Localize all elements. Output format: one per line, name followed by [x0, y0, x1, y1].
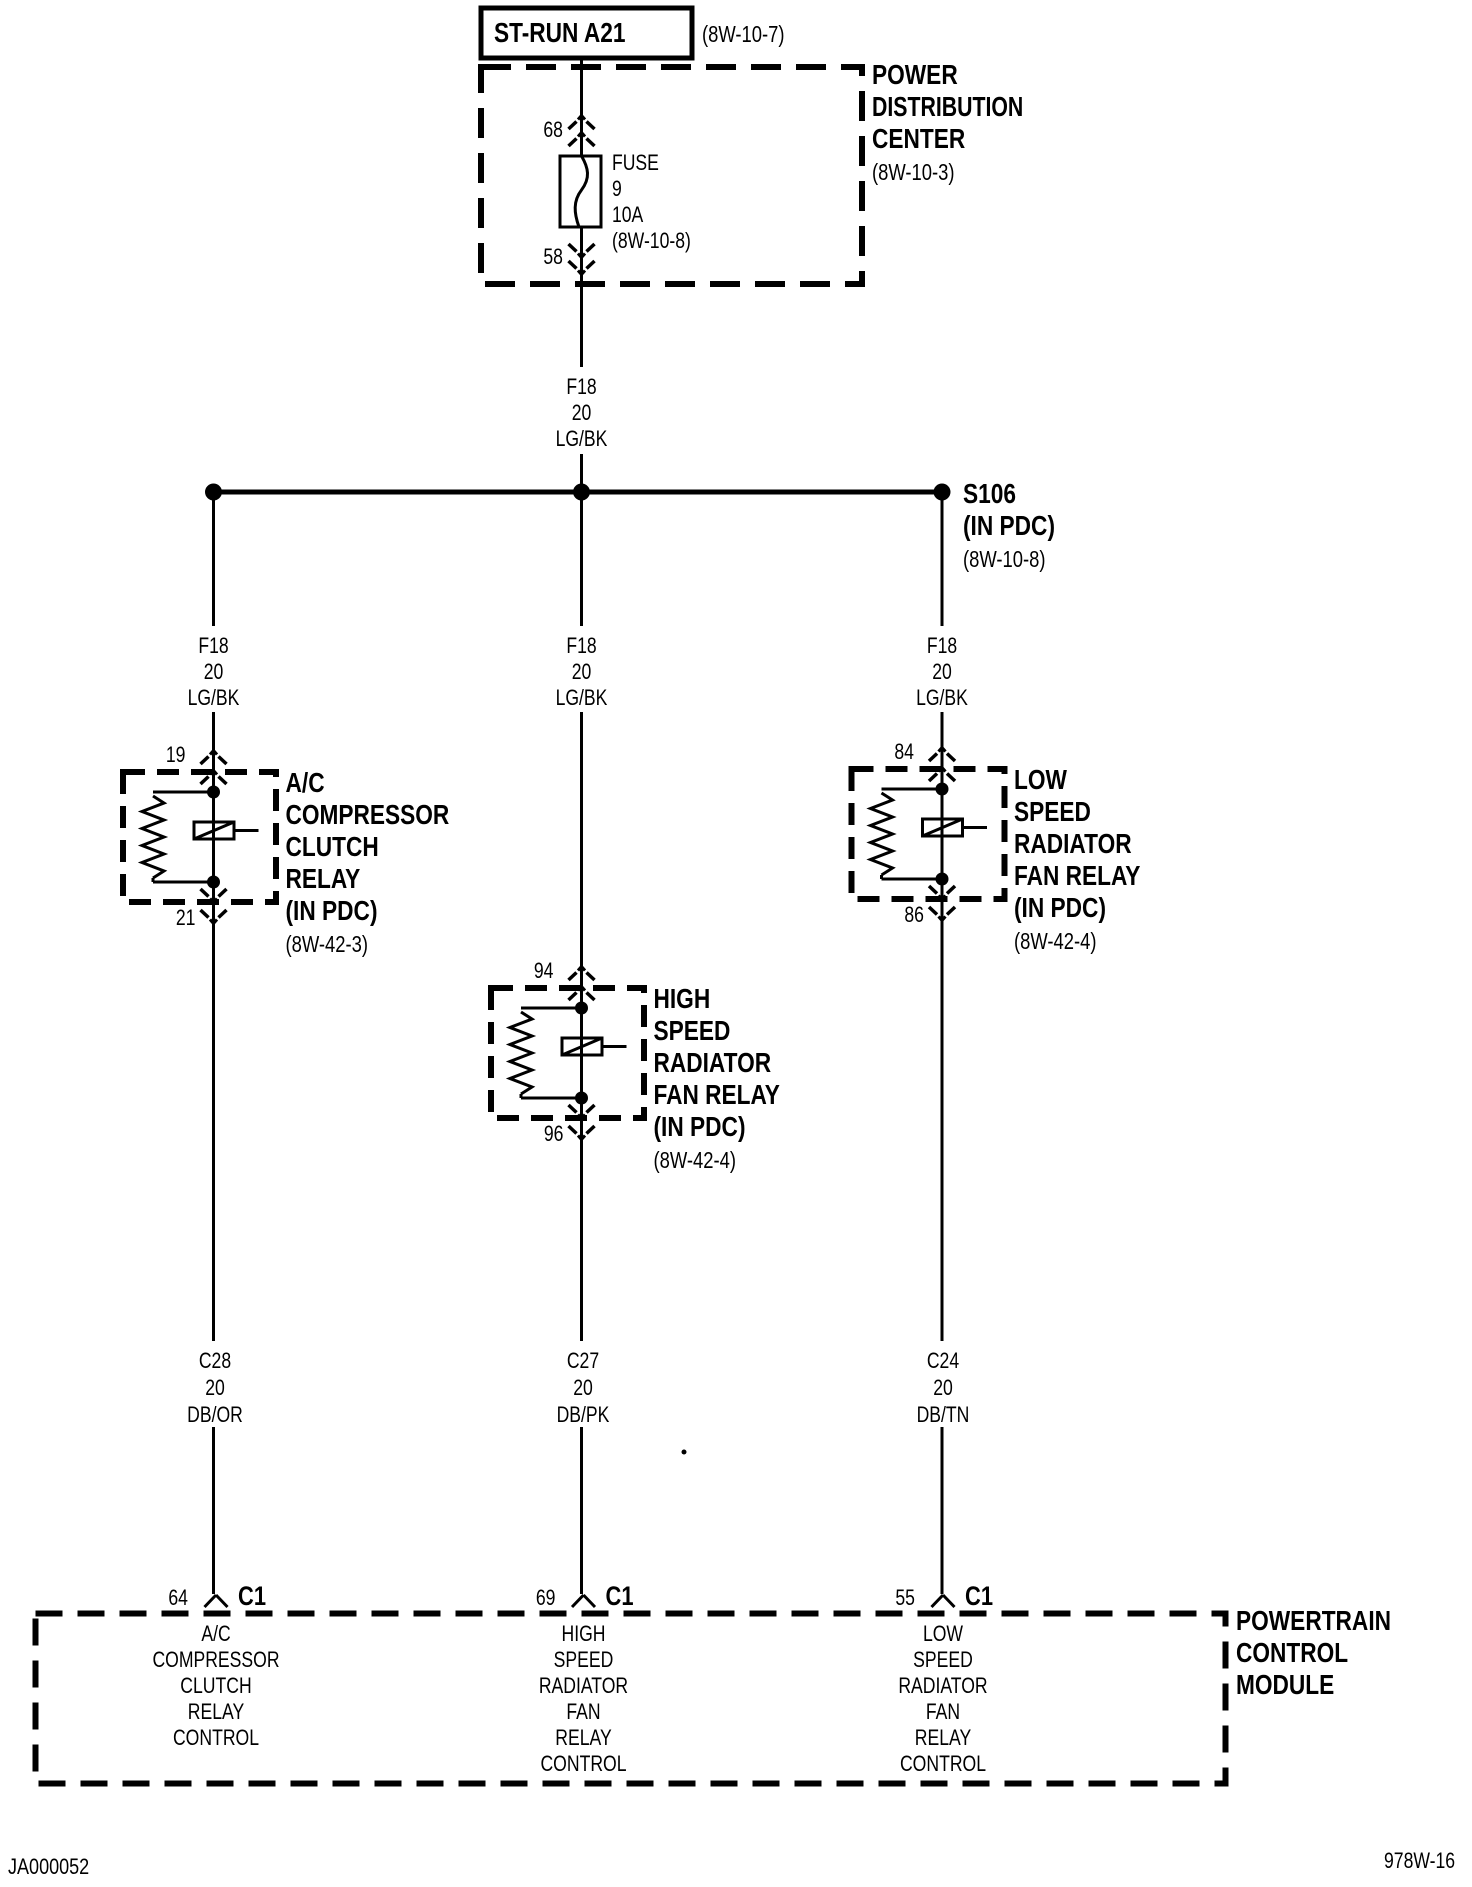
svg-text:MODULE: MODULE	[1236, 1669, 1334, 1700]
svg-text:(8W-10-3): (8W-10-3)	[872, 159, 955, 185]
svg-text:20: 20	[572, 659, 592, 684]
svg-text:F18: F18	[927, 633, 957, 658]
svg-text:HIGH: HIGH	[562, 1621, 606, 1646]
svg-text:20: 20	[204, 659, 224, 684]
svg-text:19: 19	[166, 742, 186, 767]
svg-text:A/C: A/C	[286, 767, 325, 798]
svg-text:LOW: LOW	[1014, 764, 1067, 795]
svg-text:86: 86	[904, 902, 924, 927]
svg-text:FAN RELAY: FAN RELAY	[1014, 860, 1141, 891]
svg-text:RADIATOR: RADIATOR	[1014, 828, 1132, 859]
svg-text:C24: C24	[927, 1348, 959, 1373]
svg-text:COMPRESSOR: COMPRESSOR	[286, 799, 450, 830]
svg-text:FAN RELAY: FAN RELAY	[654, 1079, 781, 1110]
svg-text:JA000052: JA000052	[8, 1854, 89, 1879]
svg-text:21: 21	[176, 905, 196, 930]
svg-text:POWERTRAIN: POWERTRAIN	[1236, 1605, 1391, 1636]
svg-text:(8W-42-4): (8W-42-4)	[1014, 928, 1097, 954]
svg-text:(8W-42-4): (8W-42-4)	[654, 1147, 737, 1173]
svg-text:DB/TN: DB/TN	[917, 1402, 970, 1427]
svg-text:(8W-10-7): (8W-10-7)	[702, 21, 785, 47]
svg-text:(8W-10-8): (8W-10-8)	[963, 546, 1046, 572]
svg-text:CONTROL: CONTROL	[1236, 1637, 1348, 1668]
svg-text:(IN PDC): (IN PDC)	[654, 1111, 746, 1142]
svg-text:F18: F18	[566, 633, 596, 658]
svg-text:C1: C1	[606, 1581, 634, 1611]
svg-text:LG/BK: LG/BK	[188, 685, 240, 710]
svg-text:C1: C1	[965, 1581, 993, 1611]
svg-text:69: 69	[536, 1585, 556, 1610]
svg-text:20: 20	[573, 1375, 593, 1400]
svg-text:96: 96	[544, 1121, 564, 1146]
svg-text:20: 20	[933, 1375, 953, 1400]
svg-text:(IN PDC): (IN PDC)	[286, 895, 378, 926]
svg-text:55: 55	[895, 1585, 915, 1610]
svg-text:CONTROL: CONTROL	[900, 1751, 986, 1776]
svg-text:C28: C28	[199, 1348, 231, 1373]
svg-text:FUSE: FUSE	[612, 150, 659, 175]
svg-text:RADIATOR: RADIATOR	[654, 1047, 772, 1078]
svg-text:DB/PK: DB/PK	[557, 1402, 610, 1427]
svg-text:C1: C1	[238, 1581, 266, 1611]
svg-text:10A: 10A	[612, 202, 644, 227]
svg-text:S106: S106	[963, 478, 1016, 509]
svg-text:RELAY: RELAY	[555, 1725, 612, 1750]
svg-text:84: 84	[894, 739, 914, 764]
svg-text:CENTER: CENTER	[872, 123, 965, 154]
svg-text:RADIATOR: RADIATOR	[898, 1673, 987, 1698]
svg-text:RADIATOR: RADIATOR	[539, 1673, 628, 1698]
svg-text:A/C: A/C	[201, 1621, 230, 1646]
svg-text:(8W-42-3): (8W-42-3)	[286, 931, 369, 957]
svg-text:58: 58	[543, 244, 563, 269]
svg-text:(8W-10-8): (8W-10-8)	[612, 228, 691, 253]
svg-text:20: 20	[572, 400, 592, 425]
svg-text:CLUTCH: CLUTCH	[286, 831, 379, 862]
svg-text:LOW: LOW	[923, 1621, 963, 1646]
svg-text:94: 94	[534, 958, 554, 983]
svg-text:(IN PDC): (IN PDC)	[963, 510, 1055, 541]
svg-text:POWER: POWER	[872, 59, 958, 90]
svg-text:F18: F18	[198, 633, 228, 658]
svg-text:DB/OR: DB/OR	[187, 1402, 243, 1427]
svg-text:RELAY: RELAY	[286, 863, 361, 894]
svg-text:SPEED: SPEED	[913, 1647, 973, 1672]
svg-text:CLUTCH: CLUTCH	[180, 1673, 251, 1698]
svg-text:CONTROL: CONTROL	[540, 1751, 626, 1776]
svg-text:FAN: FAN	[566, 1699, 600, 1724]
svg-text:COMPRESSOR: COMPRESSOR	[152, 1647, 279, 1672]
svg-text:LG/BK: LG/BK	[916, 685, 968, 710]
svg-text:SPEED: SPEED	[1014, 796, 1091, 827]
svg-text:9: 9	[612, 176, 622, 201]
svg-text:LG/BK: LG/BK	[556, 685, 608, 710]
svg-text:ST-RUN A21: ST-RUN A21	[494, 17, 626, 48]
svg-text:RELAY: RELAY	[188, 1699, 245, 1724]
svg-text:CONTROL: CONTROL	[173, 1725, 259, 1750]
svg-text:(IN PDC): (IN PDC)	[1014, 892, 1106, 923]
svg-text:FAN: FAN	[926, 1699, 960, 1724]
svg-text:20: 20	[932, 659, 952, 684]
svg-text:64: 64	[168, 1585, 188, 1610]
svg-text:978W-16: 978W-16	[1384, 1848, 1455, 1873]
svg-text:RELAY: RELAY	[915, 1725, 972, 1750]
svg-text:DISTRIBUTION: DISTRIBUTION	[872, 91, 1023, 122]
svg-text:LG/BK: LG/BK	[556, 426, 608, 451]
svg-text:20: 20	[205, 1375, 225, 1400]
svg-text:C27: C27	[567, 1348, 599, 1373]
svg-text:SPEED: SPEED	[554, 1647, 614, 1672]
svg-text:F18: F18	[566, 374, 596, 399]
svg-text:HIGH: HIGH	[654, 983, 711, 1014]
svg-text:SPEED: SPEED	[654, 1015, 731, 1046]
svg-text:68: 68	[543, 117, 563, 142]
